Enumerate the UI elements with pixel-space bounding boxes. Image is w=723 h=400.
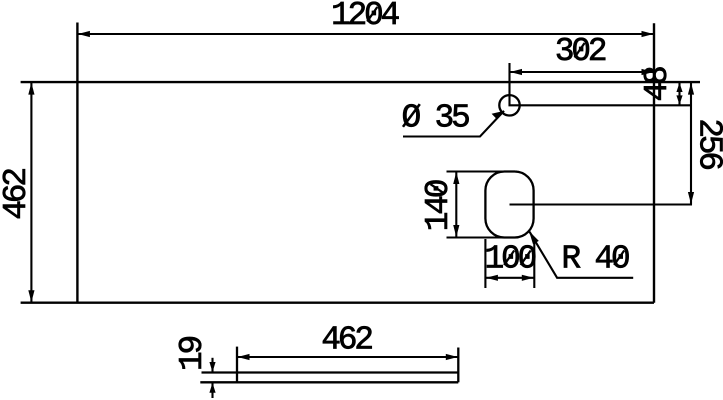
svg-text:256: 256 [691,118,723,169]
svg-text:140: 140 [420,180,457,231]
svg-text:100: 100 [484,241,535,278]
arrow 256 up [688,83,694,95]
slash of 0 in R 40 [614,251,624,266]
strip top edge [202,371,459,373]
svg-text:462: 462 [321,322,372,359]
worktop left edge [76,23,78,303]
arrow 462B right [446,354,458,360]
arrow leader d35 [492,111,504,119]
sink centerline [510,203,693,205]
dimension shaft 19 upper [211,358,213,373]
worktop bottom edge [21,302,654,304]
dimension shaft 19 lower [211,382,213,398]
arrow leader R40 [529,231,539,244]
arrow 140 up [453,172,459,184]
strip right edge [457,348,459,383]
arrow 462B left [238,354,250,360]
slash of 0 in 140 [431,184,445,194]
dimension line 462 left [30,82,32,303]
leader diameter 35 [403,111,504,137]
svg-text:1204: 1204 [331,0,400,34]
extension line 140 top [447,170,518,172]
slash of 0 in 302 [575,43,585,58]
svg-text:19: 19 [174,337,211,372]
arrow 302 left [510,69,522,75]
strip left edge [236,347,238,383]
arrow 1204 left [78,31,90,37]
extension line circle center vertical + horizontal [510,63,693,105]
extension line 100 left [484,239,486,288]
slash of 0 in 1204 [367,7,377,22]
arrow 48 down [676,95,682,104]
text 19 rotated [174,337,211,372]
slashes of 0s in 100 [504,251,514,266]
dimension line 1204 [77,33,654,35]
text 140 rotated [420,180,457,231]
leader R 40 [530,232,634,278]
dimension line 256 [690,82,692,204]
svg-text:Ø 35: Ø 35 [401,100,469,137]
worktop right edge [653,23,655,303]
arrow 100 left [486,275,498,281]
arrow 462L bottom [28,290,34,302]
dimension line 140 [455,172,457,238]
arrow 140 down [453,225,459,237]
arrow 1204 right [642,31,654,37]
dimension line 302 [510,71,655,73]
arrow 256 down [688,192,694,204]
arrow 100 right [522,275,534,281]
dimension line 462 bottom [237,356,458,358]
text 462 left rotated [0,169,35,220]
svg-text:462: 462 [0,169,35,220]
arrow 19 down [209,362,215,372]
extension line 140 bottom [447,236,518,238]
svg-text:48: 48 [639,67,676,102]
arrow 302 right [642,69,654,75]
worktop top edge [21,81,700,83]
faucet hole circle [499,95,519,115]
text 48 rotated [639,67,676,102]
dimension line 100 [485,277,534,279]
dimension shaft 48 [678,82,680,105]
arrow 19 up [209,383,215,393]
svg-text:302: 302 [555,33,606,70]
arrow 48 up [676,83,682,92]
arrow 462L top [28,83,34,95]
extension line 100 right [533,239,535,288]
sink cutout rounded rectangle [485,172,533,238]
text 256 rotated [691,118,723,169]
strip bottom edge [200,381,458,383]
